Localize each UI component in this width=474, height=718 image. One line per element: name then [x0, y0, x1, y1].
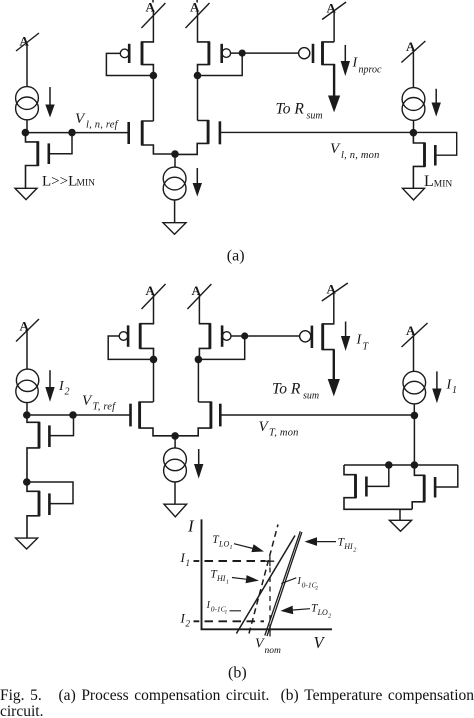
svg-text:1: 1 [230, 545, 233, 551]
svg-text:LO: LO [317, 608, 328, 617]
svg-text:MIN: MIN [77, 178, 96, 188]
svg-text:V: V [314, 633, 326, 652]
svg-text:sum: sum [303, 390, 319, 401]
svg-text:To R: To R [272, 381, 301, 398]
svg-text:V: V [330, 141, 341, 157]
svg-text:(b): (b) [228, 665, 247, 682]
svg-text:T: T [363, 342, 370, 353]
svg-text:V: V [75, 111, 86, 127]
svg-text:V: V [82, 393, 93, 409]
svg-text:A: A [190, 0, 200, 15]
svg-text:sum: sum [307, 110, 323, 121]
svg-text:To R: To R [276, 101, 305, 118]
svg-text:I: I [356, 333, 363, 348]
svg-text:V: V [259, 419, 270, 435]
svg-text:A: A [146, 283, 156, 298]
svg-text:2: 2 [353, 548, 356, 554]
svg-text:2: 2 [328, 614, 331, 620]
svg-text:A: A [327, 282, 337, 297]
svg-text:A: A [146, 0, 156, 15]
svg-text:A: A [406, 323, 416, 338]
svg-text:2: 2 [315, 585, 318, 591]
svg-text:A: A [192, 283, 202, 298]
svg-text:A: A [20, 319, 30, 334]
svg-text:1: 1 [186, 558, 191, 568]
svg-text:2: 2 [65, 387, 70, 398]
svg-text:I: I [352, 56, 359, 71]
svg-text:I: I [187, 517, 195, 536]
svg-text:L: L [424, 173, 434, 190]
svg-text:HI: HI [216, 574, 226, 583]
svg-text:A: A [406, 39, 416, 54]
svg-text:1: 1 [452, 385, 457, 396]
svg-text:A: A [20, 34, 30, 49]
svg-text:l, n, ref: l, n, ref [86, 120, 120, 131]
svg-text:HI: HI [343, 542, 353, 551]
svg-text:(a): (a) [227, 248, 245, 265]
svg-text:LO: LO [218, 540, 229, 549]
svg-text:l, n, mon: l, n, mon [341, 150, 380, 161]
svg-text:nom: nom [265, 646, 282, 656]
svg-text:2: 2 [186, 618, 191, 628]
svg-text:T, ref: T, ref [93, 402, 118, 413]
svg-text:MIN: MIN [434, 179, 453, 189]
svg-text:nproc: nproc [359, 65, 383, 76]
svg-text:V: V [255, 637, 265, 652]
svg-text:1: 1 [226, 580, 229, 586]
svg-text:1: 1 [225, 609, 228, 615]
svg-text:T, mon: T, mon [269, 428, 299, 439]
svg-text:A: A [327, 1, 337, 16]
svg-text:L>>L: L>>L [42, 173, 77, 189]
